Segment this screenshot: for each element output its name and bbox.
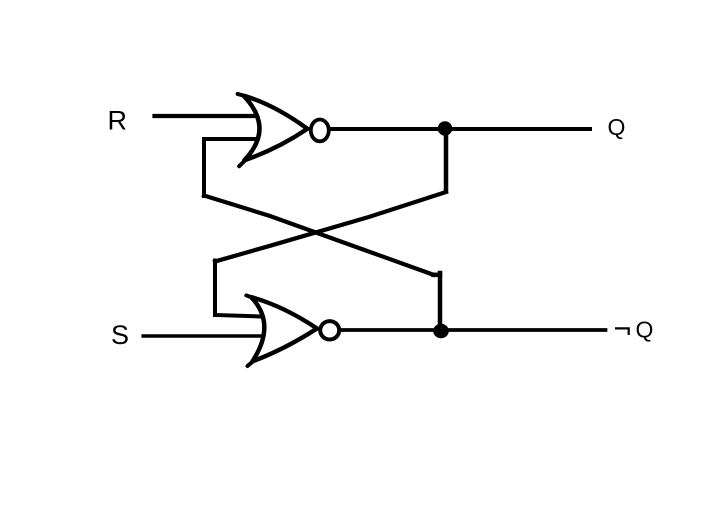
wire diagonal notQ feedback (lower-right to upper-left) (204, 196, 434, 275)
svg-text:R: R (108, 106, 128, 136)
U2 bottom corner overshoot (248, 360, 255, 366)
NOR gate U1 body (top) (243, 96, 307, 161)
wire left vertical (notQ feedback riser) (202, 140, 206, 197)
U2 top corner overshoot (246, 295, 254, 298)
wire vertical into node notQ (438, 273, 443, 330)
wire U2 output to notQ (341, 328, 606, 332)
wire left vertical (Q feedback dropper) (213, 261, 217, 316)
wire U1 lower input horizontal (feedback from notQ) (204, 137, 257, 141)
wire U2 upper input horizontal (feedback from Q) (215, 315, 262, 317)
wire jog at top of notQ riser (434, 273, 441, 278)
node notQ junction (433, 324, 449, 339)
svg-text:Q: Q (636, 317, 654, 343)
wire R input (155, 114, 257, 118)
wire diagonal Q feedback (upper-right to lower-left) (215, 192, 446, 262)
NOR gate U2 body (bottom) (251, 297, 317, 361)
svg-text:Q: Q (608, 114, 626, 140)
U1 top corner overshoot (238, 94, 246, 96)
output label notQ (negation sign) (615, 328, 629, 335)
U2 output bubble (320, 321, 339, 339)
U1 bottom corner overshoot (239, 160, 246, 167)
wire U1 output to Q (330, 127, 590, 131)
node Q junction (438, 121, 452, 135)
svg-text:S: S (111, 320, 129, 350)
U1 output bubble (311, 119, 329, 141)
wire vertical from node Q (444, 128, 449, 191)
wire S input (143, 334, 262, 338)
